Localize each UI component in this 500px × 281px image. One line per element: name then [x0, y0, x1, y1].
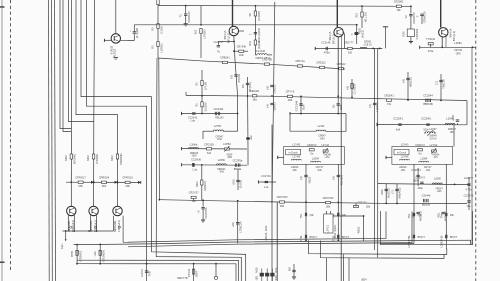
svg-text:L2F5b: L2F5b	[218, 158, 226, 162]
svg-text:L2094: L2094	[420, 157, 428, 160]
svg-text:TYB: TYB	[147, 271, 151, 277]
svg-text:10a: 10a	[467, 205, 472, 208]
svg-text:DR2Y77: DR2Y77	[344, 42, 354, 45]
svg-text:9D1: 9D1	[249, 41, 252, 46]
svg-text:(4): (4)	[368, 104, 372, 108]
svg-text:1 da: 1 da	[190, 119, 195, 122]
svg-text:CC2146: CC2146	[321, 42, 331, 45]
svg-text:1 da: 1 da	[264, 186, 269, 189]
svg-text:L1-A320: L1-A320	[353, 83, 357, 94]
svg-text:T2: T2	[404, 15, 408, 19]
svg-text:M6(A02): M6(A02)	[397, 187, 401, 198]
svg-text:CPRG04: CPRG04	[99, 176, 110, 180]
svg-text:TH2-: TH2-	[299, 235, 303, 241]
svg-text:BB5(3B: BB5(3B	[422, 203, 431, 206]
svg-text:BYL(L1): BYL(L1)	[452, 31, 456, 41]
svg-text:LTB(C20: LTB(C20	[238, 221, 242, 233]
svg-text:BB5F3B: BB5F3B	[423, 103, 433, 106]
svg-text:LTBD: LTBD	[407, 240, 411, 247]
svg-text:9B.: 9B.	[249, 12, 252, 16]
svg-text:+Db: +Db	[231, 222, 235, 228]
svg-text:-0R2: -0R2	[449, 131, 455, 134]
svg-text:1 da: 1 da	[192, 169, 197, 172]
svg-text:-D43: -D43	[319, 137, 325, 140]
svg-text:R01: R01	[356, 13, 359, 18]
svg-text:(4): (4)	[265, 104, 269, 108]
svg-text:M02: M02	[64, 155, 68, 161]
svg-text:L2YH3: L2YH3	[401, 144, 409, 147]
svg-text:470a: 470a	[428, 50, 434, 53]
svg-text:[4]: [4]	[401, 79, 405, 82]
svg-text:BaF: BaF	[302, 104, 306, 109]
svg-text:(CD-: (CD-	[274, 267, 278, 273]
svg-text:-29b: -29b	[292, 169, 297, 172]
svg-text:BD4: BD4	[194, 271, 198, 277]
svg-text:TM-: TM-	[407, 213, 411, 218]
svg-text:L2095: L2095	[434, 178, 442, 181]
svg-text:LPLBD: LPLBD	[203, 29, 207, 38]
svg-text:HB(CC): HB(CC)	[409, 77, 413, 87]
svg-text:4MDCD: 4MDCD	[444, 211, 448, 221]
svg-text:CC20YB: CC20YB	[464, 194, 474, 197]
svg-text:D(-: D(-	[332, 104, 336, 108]
svg-text:M01: M01	[195, 181, 199, 187]
svg-text:T.: T.	[249, 33, 252, 35]
svg-text:CY-D4: CY-D4	[187, 268, 191, 277]
svg-text:C20446: C20446	[422, 195, 431, 198]
svg-text:BYB: BYB	[70, 251, 74, 257]
svg-text:+(CD: +(CD	[451, 115, 455, 122]
svg-text:[4]: [4]	[345, 86, 349, 89]
svg-text:2Dk: 2Dk	[102, 185, 107, 188]
svg-text:4DD (A(CD: 4DD (A(CD	[257, 28, 261, 42]
svg-text:CR0YDN: CR0YDN	[323, 196, 334, 200]
svg-text:CR2082: CR2082	[394, 0, 404, 4]
svg-text:-17k M: -17k M	[429, 137, 436, 140]
svg-text:L2Y21: L2Y21	[326, 224, 330, 233]
svg-text:1Bk: 1Bk	[191, 200, 196, 203]
svg-text:L2YH2: L2YH2	[321, 144, 329, 147]
svg-text:M02: M02	[86, 155, 90, 161]
svg-text:TB(C20: TB(C20	[442, 79, 446, 89]
svg-text:L2YH2: L2YH2	[430, 144, 438, 147]
svg-text:(4D64-: (4D64-	[264, 232, 268, 241]
svg-text:200: 200	[348, 51, 353, 54]
svg-text:CC2044: CC2044	[423, 93, 433, 97]
svg-text:(BD4: (BD4	[333, 232, 337, 239]
svg-text:2Dk: 2Dk	[78, 185, 83, 188]
svg-text:CRY34b: CRY34b	[237, 45, 247, 48]
svg-text:CB2Y1a: CB2Y1a	[295, 60, 305, 63]
svg-text:CC2H42: CC2H42	[214, 108, 224, 111]
svg-text:CRM720: CRM720	[187, 11, 191, 23]
svg-text:9DL: 9DL	[437, 212, 441, 218]
svg-text:(4 4DB): (4 4DB)	[257, 11, 261, 21]
svg-text:4u8: 4u8	[396, 129, 401, 132]
svg-text:(06): (06)	[231, 179, 235, 184]
svg-text:47Ba: 47Ba	[324, 51, 330, 54]
svg-text:D2Y4: D2Y4	[140, 269, 144, 277]
svg-text:F(25)2: F(25)2	[113, 48, 117, 57]
svg-text:(A(DD: (A(DD	[257, 41, 261, 49]
svg-text:in Druck: in Druck	[289, 151, 299, 154]
svg-text:L2084: L2084	[454, 41, 462, 45]
svg-text:CR2Y20: CR2Y20	[358, 201, 368, 204]
svg-text:L2750: L2750	[214, 124, 222, 128]
svg-text:L2H52: L2H52	[223, 142, 231, 146]
svg-text:BH(CT: BH(CT	[450, 236, 458, 239]
svg-text:CC20Y3: CC20Y3	[411, 169, 421, 172]
svg-text:CR2Y57: CR2Y57	[189, 191, 199, 195]
svg-text:in Druck: in Druck	[397, 151, 407, 154]
svg-text:R1: R1	[151, 45, 155, 49]
svg-text:LTBD: LTBD	[439, 240, 443, 247]
svg-text:CC2041: CC2041	[393, 116, 403, 120]
svg-text:Y20: Y20	[274, 275, 278, 280]
svg-text:+0: +0	[197, 210, 201, 214]
svg-text:DU180: DU180	[203, 102, 207, 111]
svg-text:L2094: L2094	[312, 157, 320, 160]
svg-text:MR084D: MR084D	[119, 153, 123, 164]
svg-text:CR20Y2: CR20Y2	[415, 144, 425, 147]
svg-text:1Bk: 1Bk	[280, 205, 285, 208]
svg-text:T.: T.	[351, 33, 354, 35]
svg-text:190a: 190a	[417, 187, 423, 190]
svg-text:CR2Y6B: CR2Y6B	[262, 58, 272, 61]
svg-text:LTR84D: LTR84D	[95, 154, 99, 164]
svg-text:(4 4(d)B: (4 4(d)B	[135, 28, 139, 38]
svg-text:L2YH3: L2YH3	[292, 144, 300, 147]
svg-text:CC2Y47: CC2Y47	[214, 41, 224, 44]
svg-text:4(D6-: 4(D6-	[333, 224, 337, 231]
svg-text:4D(-D20: 4D(-D20	[340, 174, 344, 185]
svg-text:CC2045: CC2045	[421, 116, 431, 120]
svg-text:CR2041: CR2041	[384, 93, 394, 97]
svg-text:901: 901	[194, 29, 198, 34]
svg-text:W2: W2	[230, 74, 234, 79]
svg-text:CPRG10: CPRG10	[122, 176, 133, 180]
svg-text:-0d5: -0d5	[437, 190, 442, 193]
svg-text:CRYY6: CRYY6	[286, 90, 295, 94]
svg-text:CC2H36: CC2H36	[191, 158, 202, 162]
svg-text:CPRG17: CPRG17	[75, 175, 86, 179]
svg-text:R2: R2	[151, 27, 155, 31]
svg-text:9R6: 9R6	[380, 189, 384, 195]
svg-text:RBLUN: RBLUN	[215, 117, 223, 120]
svg-text:A2(+: A2(+	[60, 243, 64, 249]
svg-text:0.068: 0.068	[160, 26, 164, 34]
svg-text:-11RB3: -11RB3	[273, 102, 277, 112]
svg-text:-27b: -27b	[325, 156, 330, 159]
svg-text:1R6: 1R6	[288, 99, 293, 102]
svg-text:-04b: -04b	[425, 169, 430, 172]
svg-text:4(B(1: 4(B(1	[357, 226, 361, 233]
svg-text:CC2144: CC2144	[294, 100, 298, 111]
svg-text:H1 LDU: H1 LDU	[363, 12, 367, 22]
svg-text:CB2(RA: CB2(RA	[250, 90, 260, 93]
svg-text:1Bk: 1Bk	[326, 205, 331, 208]
svg-text:M02: M02	[110, 155, 114, 161]
svg-text:6n8: 6n8	[207, 152, 212, 155]
svg-text:CR2H21: CR2H21	[79, 250, 83, 261]
svg-text:LDRD1: LDRD1	[160, 43, 164, 53]
svg-text:R25: R25	[402, 31, 406, 37]
svg-text:L2YH6: L2YH6	[401, 155, 409, 158]
svg-text:L2YH6: L2YH6	[292, 155, 300, 158]
svg-text:L2H6a: L2H6a	[190, 142, 198, 146]
svg-text:BYL(L1): BYL(L1)	[331, 34, 335, 44]
svg-text:(3-(05): (3-(05)	[239, 180, 243, 189]
svg-text:CR20Y2: CR20Y2	[307, 144, 317, 147]
svg-text:CC2Y5A: CC2Y5A	[204, 207, 208, 218]
svg-text:(A(CD: (A(CD	[360, 30, 364, 38]
svg-text:CRD112: CRD112	[316, 62, 326, 65]
svg-text:CR2150: CR2150	[204, 143, 214, 147]
svg-text:+.: +.	[129, 30, 132, 32]
svg-text:9.L2146: 9.L2146	[256, 50, 266, 53]
svg-text:-04b: -04b	[317, 169, 322, 172]
svg-text:(7): (7)	[391, 190, 395, 194]
svg-text:LM320: LM320	[273, 84, 277, 93]
svg-text:CRM720: CRM720	[423, 11, 427, 23]
svg-text:4MDCD: 4MDCD	[419, 211, 423, 221]
svg-text:-2R0: -2R0	[455, 52, 461, 55]
svg-text:-040: -040	[219, 171, 224, 174]
svg-text:-(CB 01: -(CB 01	[364, 43, 373, 46]
svg-text:TT2042: TT2042	[426, 37, 436, 41]
svg-text:MR2YYB: MR2YYB	[177, 277, 188, 280]
svg-text:-27b: -27b	[433, 156, 438, 159]
svg-text:T.: T.	[416, 15, 420, 17]
svg-text:CC2Y4b: CC2Y4b	[261, 175, 271, 178]
svg-text:CC2F5a: CC2F5a	[233, 158, 243, 162]
svg-text:+Rb: +Rb	[93, 251, 97, 257]
svg-text:[7]: [7]	[434, 81, 438, 84]
svg-text:(4): (4)	[299, 176, 303, 180]
svg-text:TH2-: TH2-	[407, 235, 411, 241]
svg-text:BH(CT: BH(CT	[310, 236, 318, 239]
svg-text:1Ba: 1Ba	[252, 99, 257, 102]
svg-text:LPL86: LPL86	[203, 81, 207, 90]
svg-text:BH(CT: BH(CT	[418, 236, 426, 239]
svg-text:D20: D20	[339, 104, 343, 110]
svg-text:-0D6: -0D6	[191, 155, 197, 158]
svg-text:N(D2: N(D2	[307, 176, 311, 183]
svg-text:M2: M2	[287, 267, 291, 271]
svg-text:TM-: TM-	[299, 213, 303, 218]
svg-text:+D2: +D2	[249, 135, 253, 141]
svg-text:-D43: -D43	[217, 138, 223, 141]
svg-text:NT084D: NT084D	[73, 154, 77, 165]
svg-text:4D6-: 4D6-	[264, 225, 268, 231]
svg-text:CRY292: CRY292	[415, 28, 419, 39]
svg-text:-29b: -29b	[400, 169, 405, 172]
svg-text:L2111: L2111	[318, 124, 325, 128]
svg-text:BT(CD: BT(CD	[237, 74, 241, 83]
svg-text:(B1: (B1	[255, 275, 259, 280]
svg-text:CR0YDN: CR0YDN	[277, 195, 288, 199]
svg-text:2Dk: 2Dk	[125, 185, 130, 188]
svg-text:(4): (4)	[331, 176, 335, 180]
svg-text:L(A320: L(A320	[375, 102, 379, 112]
svg-text:R0.: R0.	[241, 84, 245, 89]
svg-text:CDb: CDb	[239, 54, 245, 57]
svg-text:[4]: [4]	[265, 86, 269, 89]
svg-text:M16: M16	[255, 267, 259, 273]
svg-text:CRB141: CRB141	[220, 57, 230, 60]
svg-text:M(A02): M(A02)	[203, 181, 207, 190]
